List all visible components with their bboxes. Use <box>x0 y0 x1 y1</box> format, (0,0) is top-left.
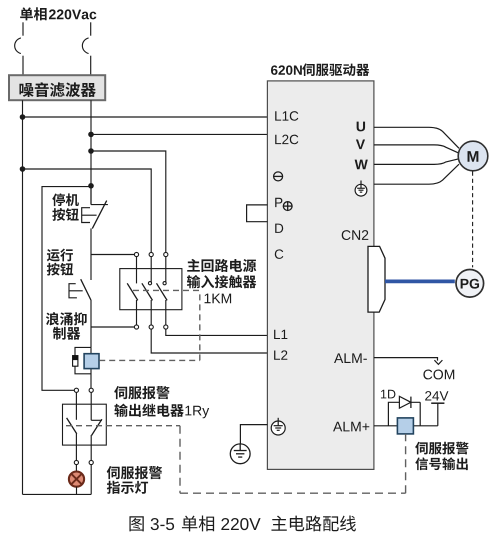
breaker contact left pole <box>15 38 21 54</box>
encoder cable (thick blue) <box>385 279 455 283</box>
node terminal below relay left contact <box>74 460 78 464</box>
external protective earth symbol <box>230 444 250 464</box>
wire - drive earth to external ground <box>240 425 267 444</box>
wire - left supply lead below breaker <box>22 56 24 75</box>
label 伺服报警输出继电器 1Ry (servo alarm output relay) <box>114 386 209 418</box>
wire - run button to coil node <box>90 300 92 348</box>
caption 图 3-5 单相 220V 主电路配线 <box>129 516 355 532</box>
label COM <box>423 370 454 380</box>
wire - right rail filter to stop button <box>90 100 92 204</box>
wire - ALM- to COM <box>374 358 438 361</box>
terminal label ALM+ <box>333 422 369 432</box>
surge suppressor varistor 浪涌抑制器 <box>73 356 78 367</box>
contactor 1KM aux self-hold pole with terminals <box>127 252 138 329</box>
wire - aux pole bottom to rail <box>0 0 1 1</box>
node junction dot on right rail at contactor feed <box>88 148 94 154</box>
COM arrowhead <box>434 360 442 364</box>
24V supply terminal <box>431 403 444 426</box>
mechanical linkage dashed line coil to 1KM <box>99 290 200 360</box>
wire - motor earth lead <box>374 164 459 184</box>
wire - tap from control rail down to alarm relay contact <box>42 187 91 391</box>
wire - left rail from filter down to lamp circuit bottom <box>22 100 24 494</box>
label 1D <box>381 390 395 399</box>
wire - W phase to motor <box>374 159 459 165</box>
label 浪涌抑制器 (surge suppressor) <box>46 312 87 340</box>
alarm indicator lamp 伺服报警指示灯 (red pilot light) <box>69 472 84 487</box>
terminal label D <box>275 224 283 233</box>
terminal label L2 <box>274 350 287 359</box>
terminal label L1 <box>274 330 287 339</box>
terminal label U <box>357 122 365 132</box>
diode 1D bypass loop <box>388 402 420 426</box>
connector CN2 plug <box>368 246 385 312</box>
node junction dot on right rail at L2C feed <box>88 132 94 138</box>
wire - lamp to bottom return <box>76 487 78 495</box>
label 主回路电源输入接触器 1KM (main circuit power input contactor) <box>187 259 256 303</box>
motor M (servo motor) <box>458 141 488 171</box>
wire - main feed to contactor right pole <box>91 151 166 252</box>
noise filter box 噪音滤波器 <box>9 75 105 100</box>
label 24V <box>425 391 448 400</box>
label 停机按钮 (stop button) <box>52 193 79 221</box>
photocoupler output (blue square) on ALM+ <box>397 418 413 434</box>
wire - L2C control feed <box>91 133 267 135</box>
mechanical linkage dashed line through relay contacts <box>66 425 180 427</box>
terminal label L1C <box>275 111 298 121</box>
wire - aux contact bottom tap <box>91 326 134 328</box>
wire - right supply lead below breaker <box>90 56 92 75</box>
label 单相220Vac (single-phase 220Vac supply) <box>20 7 96 20</box>
wire - left supply lead above breaker <box>22 22 24 35</box>
wire - between stop and run buttons <box>90 228 92 280</box>
wire - ALM+ output <box>374 425 438 427</box>
contactor 1KM coil (blue square) <box>84 354 99 369</box>
dashed signal link relay to alarm output <box>180 426 406 494</box>
ground terminal symbol inside drive (left) <box>271 418 285 435</box>
stop button SB1 normally-closed contact 停机按钮 <box>82 187 108 229</box>
label 伺服报警指示灯 (servo alarm indicator lamp) <box>107 466 162 494</box>
label 伺服报警信号输出 (servo alarm signal output) <box>415 442 468 470</box>
wire - right pole to drive L1 <box>166 329 268 335</box>
run button SB2 normally-open contact 运行按钮 <box>69 279 91 300</box>
wire - U phase to motor <box>374 127 459 148</box>
node terminal above relay right contact <box>89 388 93 392</box>
breaker contact right pole <box>82 38 88 54</box>
regen jumper bar between P and D terminals <box>247 205 268 222</box>
wire - aux contact top tap <box>91 254 134 256</box>
wire - right supply lead above breaker <box>90 22 92 35</box>
terminal label W <box>355 160 368 170</box>
terminal symbol minus ⊖ <box>274 172 283 181</box>
relay 1Ry left contact (lamp circuit) <box>67 392 77 460</box>
terminal label V <box>356 139 365 149</box>
terminal label P⊕ <box>275 198 292 211</box>
wire - coil node segments on rail <box>90 347 92 388</box>
node junction dot at stop-button branch <box>88 183 94 189</box>
node junction dot on left rail at L1C feed <box>20 114 26 120</box>
contactor 1KM middle main pole with terminals <box>142 252 153 329</box>
encoder PG <box>456 270 484 298</box>
dashed shaft link motor to encoder <box>472 172 474 268</box>
wire - middle pole to drive L2 <box>151 329 267 353</box>
mechanical linkage dashed line through 1KM poles <box>133 289 200 291</box>
node junction dot on left rail at contactor feed <box>20 166 26 172</box>
ground terminal symbol inside drive (right) <box>355 181 367 197</box>
wire - relay right contact to bottom return <box>90 465 92 495</box>
relay 1Ry right contact (coil circuit) <box>91 392 102 460</box>
terminal label ALM- <box>334 353 367 363</box>
contactor 1KM enclosure box <box>120 269 182 310</box>
node terminal above relay left contact <box>74 388 78 392</box>
wire - relay left contact to lamp <box>75 465 77 472</box>
wire - L1C control feed <box>23 116 268 118</box>
label 620N伺服驱动器 (servo drive title) <box>271 63 369 76</box>
terminal label L2C <box>275 135 298 145</box>
node terminal below relay right contact <box>89 460 93 464</box>
terminal label C <box>275 249 284 259</box>
wire - bottom return rail <box>23 493 92 495</box>
contactor 1KM right main pole with terminals <box>157 252 168 329</box>
wire - varistor parallel loop <box>75 347 91 373</box>
wire - V phase to motor <box>374 145 459 153</box>
servo drive 620N enclosure <box>267 81 374 470</box>
diode 1D <box>399 396 411 408</box>
label 运行按钮 (run button) <box>47 249 73 276</box>
wire - main feed to contactor middle pole <box>23 169 152 252</box>
terminal label CN2 <box>342 230 369 240</box>
relay 1Ry enclosure box <box>63 404 107 445</box>
